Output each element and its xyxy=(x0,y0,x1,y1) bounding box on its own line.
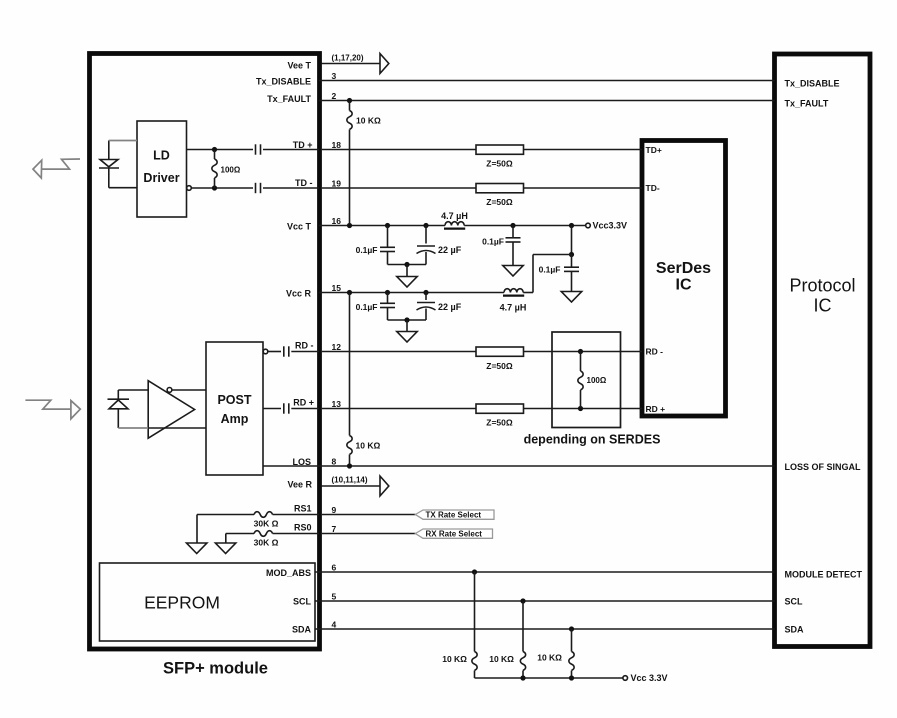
svg-text:Tx_FAULT: Tx_FAULT xyxy=(267,94,311,104)
wire RD- to SFP edge xyxy=(291,351,319,353)
junction SCL pull-up xyxy=(520,598,525,603)
Protocol IC box xyxy=(775,54,871,647)
svg-text:2: 2 xyxy=(332,91,337,101)
capacitor 22uF VccR xyxy=(417,293,436,321)
wire TD+ to SFP edge xyxy=(263,149,319,151)
svg-text:Vcc 3.3V: Vcc 3.3V xyxy=(631,673,668,683)
svg-text:SerDes: SerDes xyxy=(656,260,711,277)
svg-text:Amp: Amp xyxy=(221,412,249,426)
impedance Z=50 TD+ xyxy=(476,145,524,154)
resistor 10K pull LOS to VccR xyxy=(347,293,352,467)
wire VccT rail xyxy=(319,225,586,227)
svg-text:Tx_DISABLE: Tx_DISABLE xyxy=(785,79,840,89)
wire VccR cap ground bus xyxy=(388,319,427,321)
svg-text:100Ω: 100Ω xyxy=(221,166,241,175)
wire RD- to SerDes xyxy=(524,351,643,353)
svg-text:Z=50Ω: Z=50Ω xyxy=(486,197,513,207)
svg-text:19: 19 xyxy=(332,179,342,189)
impedance Z=50 RD+ xyxy=(476,404,524,413)
svg-text:Protocol: Protocol xyxy=(789,276,855,296)
resistor 30K RS0 xyxy=(254,531,273,537)
svg-text:6: 6 xyxy=(332,563,337,573)
svg-text:SFP+ module: SFP+ module xyxy=(163,660,268,678)
VeeR off-page arrow xyxy=(380,476,389,496)
svg-text:10 KΩ: 10 KΩ xyxy=(356,116,381,126)
photodiode at POST Amp xyxy=(108,399,130,409)
POST Amp block xyxy=(206,342,263,475)
impedance Z=50 TD- xyxy=(476,184,524,193)
svg-text:12: 12 xyxy=(332,342,342,352)
svg-text:RD -: RD - xyxy=(295,341,314,351)
capacitor 0.1uF after inductor xyxy=(506,226,521,266)
svg-text:RS0: RS0 xyxy=(294,523,312,533)
svg-text:22 µF: 22 µF xyxy=(438,302,462,312)
svg-text:10 KΩ: 10 KΩ xyxy=(489,654,514,664)
wire TD+ to Z=50 resistor xyxy=(322,149,476,151)
SerDes IC label xyxy=(656,260,711,294)
ground VccT caps xyxy=(397,265,417,288)
LD Driver block xyxy=(137,121,187,217)
ground cap3 xyxy=(503,266,523,277)
wire amp to POST Amp block xyxy=(172,389,206,391)
svg-text:SCL: SCL xyxy=(293,597,312,607)
wire RD+ from POST Amp xyxy=(263,408,281,410)
Protocol IC label xyxy=(789,276,855,316)
LD Driver label xyxy=(143,149,179,186)
wire MOD_ABS xyxy=(315,571,775,573)
wire SDA xyxy=(315,628,775,630)
junction VccR pull-up LOS xyxy=(347,290,352,295)
wire RS0 ground drop xyxy=(225,534,227,544)
svg-text:Vee T: Vee T xyxy=(287,61,311,71)
svg-text:TD-: TD- xyxy=(646,183,660,193)
wire TD+ from LD Driver xyxy=(187,149,254,151)
wire RD+ to Z=50 resistor xyxy=(322,408,476,410)
svg-text:LOS: LOS xyxy=(292,457,311,467)
wire RD- from POST Amp xyxy=(268,351,281,353)
svg-text:Vcc3.3V: Vcc3.3V xyxy=(593,221,628,231)
svg-text:RD +: RD + xyxy=(646,404,666,414)
TX optical output arrow xyxy=(33,159,80,178)
junction right branch xyxy=(569,252,574,257)
svg-text:Vee R: Vee R xyxy=(287,480,312,490)
svg-text:10 KΩ: 10 KΩ xyxy=(356,441,381,451)
svg-text:RS1: RS1 xyxy=(294,504,312,514)
svg-text:EEPROM: EEPROM xyxy=(144,593,220,613)
svg-text:SCL: SCL xyxy=(785,597,804,607)
svg-text:depending on SERDES: depending on SERDES xyxy=(524,433,661,447)
VeeT off-page arrow xyxy=(380,54,389,74)
svg-text:13: 13 xyxy=(332,399,342,409)
svg-text:IC: IC xyxy=(676,277,692,294)
wire RD+ to SerDes xyxy=(524,408,643,410)
wire Tx_DISABLE xyxy=(319,80,775,82)
svg-text:IC: IC xyxy=(814,296,832,316)
wire VccT right branch down xyxy=(571,226,573,255)
wire TD- to SerDes xyxy=(524,187,643,189)
svg-text:(1,17,20): (1,17,20) xyxy=(332,54,364,63)
inductor 4.7uH VccT xyxy=(445,222,464,226)
svg-text:3: 3 xyxy=(332,71,337,81)
POST Amp RD- output bubble xyxy=(263,349,268,354)
junction TD- termination xyxy=(212,185,217,190)
svg-text:MODULE DETECT: MODULE DETECT xyxy=(785,570,863,580)
junction VccT right branch xyxy=(569,223,574,228)
wire laser diode cathode xyxy=(109,168,137,188)
junction LOS pull xyxy=(347,463,352,468)
Vcc3.3V terminal (pull-up bus) xyxy=(623,673,668,683)
SerDes IC box xyxy=(642,141,726,417)
svg-text:Tx_FAULT: Tx_FAULT xyxy=(785,99,829,109)
junction SDA pull-up bus xyxy=(569,675,574,680)
wire Tx_FAULT xyxy=(319,100,775,102)
laser diode at LD Driver xyxy=(99,160,119,169)
junction VccT cap2 xyxy=(423,223,428,228)
junction RD+ termination xyxy=(578,406,583,411)
svg-text:Driver: Driver xyxy=(143,171,179,185)
resistor 10K pull-up SCL xyxy=(520,601,525,678)
svg-text:TD +: TD + xyxy=(293,140,313,150)
series capacitor RD+ xyxy=(283,403,285,413)
svg-text:16: 16 xyxy=(332,216,342,226)
amplifier output bubble xyxy=(167,388,172,393)
junction RD- termination xyxy=(578,349,583,354)
wire RS0 to RX Rate Select xyxy=(322,533,415,535)
wire LOS xyxy=(263,465,775,467)
wire RD- to Z=50 resistor xyxy=(322,351,476,353)
svg-text:4.7 µH: 4.7 µH xyxy=(500,303,527,313)
wire photodiode cathode xyxy=(118,390,148,399)
svg-text:LOSS OF SINGAL: LOSS OF SINGAL xyxy=(785,462,862,472)
junction SCL pull-up bus xyxy=(520,675,525,680)
svg-text:15: 15 xyxy=(332,283,342,293)
wire RD+ to SFP edge xyxy=(291,408,319,410)
ground right branch cap xyxy=(561,292,581,303)
ground VccR caps xyxy=(397,320,417,342)
capacitor 0.1uF right branch xyxy=(564,255,579,292)
resistor 30K RS1 xyxy=(254,512,273,518)
wire TD- from LD Driver xyxy=(191,187,253,189)
EEPROM block xyxy=(100,563,316,641)
svg-text:5: 5 xyxy=(332,592,337,602)
wire SCL xyxy=(315,600,775,602)
capacitor 22uF VccT xyxy=(417,226,436,265)
svg-text:Z=50Ω: Z=50Ω xyxy=(486,418,513,428)
amplifier triangle POST Amp xyxy=(148,381,194,439)
capacitor 0.1uF VccT xyxy=(380,226,395,265)
junction MOD_ABS pull-up xyxy=(472,569,477,574)
junction VccT pull-up xyxy=(347,223,352,228)
svg-text:Vcc R: Vcc R xyxy=(286,289,312,299)
svg-text:0.1µF: 0.1µF xyxy=(356,245,378,255)
svg-text:Vcc T: Vcc T xyxy=(287,222,312,232)
svg-text:LD: LD xyxy=(153,149,170,163)
svg-text:RD -: RD - xyxy=(646,347,664,357)
wire VccR rail xyxy=(319,292,533,294)
svg-text:RX Rate Select: RX Rate Select xyxy=(426,530,483,539)
series capacitor TD+ xyxy=(255,144,257,154)
ground RS0 xyxy=(215,543,235,554)
ground RS1 xyxy=(187,543,207,554)
svg-text:22 µF: 22 µF xyxy=(438,245,462,255)
inductor 4.7uH VccR xyxy=(504,289,523,293)
junction VccR cap1 xyxy=(385,290,390,295)
svg-text:9: 9 xyxy=(332,505,337,515)
TX Rate Select net flag xyxy=(415,510,494,520)
series capacitor RD- xyxy=(283,346,285,356)
junction VccT cap1 xyxy=(385,223,390,228)
wire VeeR xyxy=(322,485,381,487)
SFP+ module box xyxy=(90,54,320,650)
RX Rate Select net flag xyxy=(415,529,492,539)
svg-text:TX Rate Select: TX Rate Select xyxy=(426,511,482,520)
wire VeeT xyxy=(322,63,381,65)
wire photodiode anode xyxy=(118,409,206,428)
svg-text:POST: POST xyxy=(217,393,251,407)
svg-text:100Ω: 100Ω xyxy=(587,376,607,385)
svg-text:MOD_ABS: MOD_ABS xyxy=(266,568,311,578)
capacitor 0.1uF VccR xyxy=(380,293,395,321)
impedance Z=50 RD- xyxy=(476,347,524,356)
svg-text:8: 8 xyxy=(332,457,337,467)
svg-text:0.1µF: 0.1µF xyxy=(356,302,378,312)
wire TD- to Z=50 resistor xyxy=(322,187,476,189)
svg-text:Z=50Ω: Z=50Ω xyxy=(486,361,513,371)
wire TD+ to SerDes xyxy=(524,149,643,151)
svg-text:SDA: SDA xyxy=(292,625,312,635)
junction Tx_FAULT / pull-up xyxy=(347,98,352,103)
wire VccT cap ground bus xyxy=(388,264,427,266)
wire RS1 left xyxy=(197,514,319,516)
svg-text:7: 7 xyxy=(332,524,337,534)
svg-text:4: 4 xyxy=(332,620,337,630)
svg-text:Tx_DISABLE: Tx_DISABLE xyxy=(256,77,311,87)
svg-text:TD -: TD - xyxy=(295,178,313,188)
svg-text:18: 18 xyxy=(332,140,342,150)
junction SDA pull-up xyxy=(569,626,574,631)
POST Amp label xyxy=(217,393,251,426)
svg-text:SDA: SDA xyxy=(785,625,805,635)
Vcc3.3V terminal (VccT) xyxy=(586,221,627,231)
wire RS1 ground drop xyxy=(196,515,198,544)
junction VccR cap2 xyxy=(423,290,428,295)
svg-text:0.1µF: 0.1µF xyxy=(482,237,504,247)
junction VccT cap3 xyxy=(510,223,515,228)
svg-text:10 KΩ: 10 KΩ xyxy=(537,653,562,663)
svg-text:30K Ω: 30K Ω xyxy=(254,538,279,548)
wire Vcc3.3V pull-up bus xyxy=(475,677,623,679)
svg-text:(10,11,14): (10,11,14) xyxy=(332,476,368,485)
resistor 100 Ohm RX termination xyxy=(578,352,583,409)
svg-text:30K Ω: 30K Ω xyxy=(254,519,279,529)
svg-text:TD+: TD+ xyxy=(646,145,662,155)
series capacitor TD- xyxy=(255,183,257,193)
RX optical input arrow xyxy=(25,400,80,419)
wire TD- to SFP edge xyxy=(263,187,319,189)
wire RS1 to TX Rate Select xyxy=(322,514,415,516)
LD Driver TD- output bubble xyxy=(187,186,192,191)
svg-text:Z=50Ω: Z=50Ω xyxy=(486,159,513,169)
resistor 10K pull-up MOD_ABS xyxy=(472,572,477,678)
resistor 100 Ohm TX termination xyxy=(212,150,217,189)
svg-text:4.7 µH: 4.7 µH xyxy=(441,211,468,221)
resistor 10K pull-up Tx_FAULT to VccT xyxy=(347,101,352,226)
wire VccR elbow to right branch xyxy=(533,255,572,293)
wire laser diode anode xyxy=(109,141,137,160)
junction TD+ termination xyxy=(212,147,217,152)
junction VccT cap bus xyxy=(404,262,409,267)
svg-text:RD +: RD + xyxy=(293,398,314,408)
wire RS0 left xyxy=(226,533,319,535)
resistor 10K pull-up SDA xyxy=(569,629,574,678)
svg-text:0.1µF: 0.1µF xyxy=(539,265,561,275)
depending on SERDES box xyxy=(552,332,621,428)
svg-text:10 KΩ: 10 KΩ xyxy=(442,654,467,664)
junction VccR cap bus xyxy=(404,317,409,322)
